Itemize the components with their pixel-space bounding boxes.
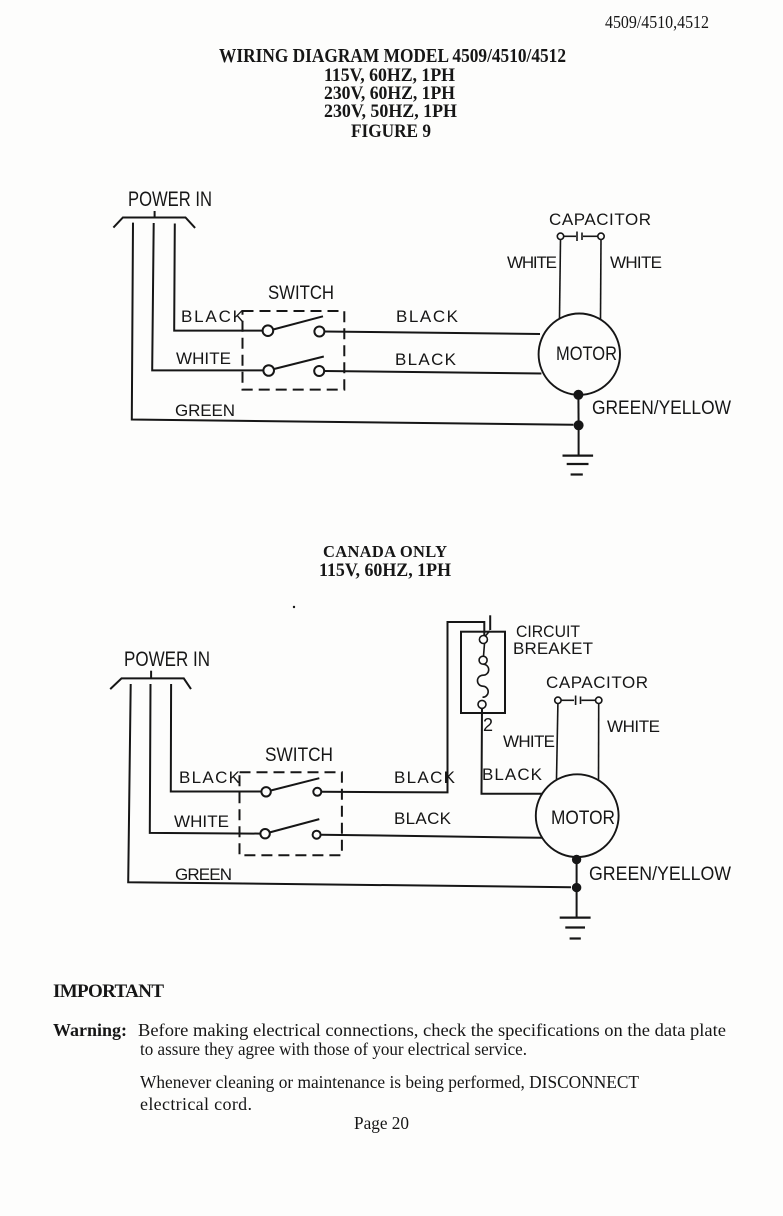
switch S2 pole 2 (diagram 2) [260,819,320,839]
svg-text:Page 20: Page 20 [354,1113,409,1133]
svg-text:FIGURE 9: FIGURE 9 [351,122,431,142]
svg-text:GREEN: GREEN [175,401,235,420]
svg-text:BLACK: BLACK [181,307,245,326]
svg-text:GREEN/YELLOW: GREEN/YELLOW [592,398,731,419]
svg-text:Whenever cleaning or maintenan: Whenever cleaning or maintenance is bein… [140,1072,639,1092]
svg-text:2: 2 [483,715,493,735]
svg-text:WHITE: WHITE [174,812,229,831]
junction dot green wire (diagram 2) [572,883,581,892]
svg-text:BLACK: BLACK [395,350,457,369]
svg-text:to assure they agree with thos: to assure they agree with those of your … [140,1039,527,1059]
svg-text:electrical cord.: electrical cord. [140,1094,252,1114]
svg-text:BLACK: BLACK [394,768,456,787]
svg-text:BLACK: BLACK [394,809,452,828]
svg-text:GREEN: GREEN [175,865,232,884]
svg-text:115V, 60HZ, 1PH: 115V, 60HZ, 1PH [324,66,456,86]
svg-text:BREAKET: BREAKET [513,639,593,658]
wire switch pole 2 to motor (diagram 2) [321,835,542,838]
wire black lead (diagram 1) [174,224,262,331]
motor M2 (diagram 2) [536,774,619,857]
svg-text:4509/4510,4512: 4509/4510,4512 [605,12,709,32]
ground symbol (diagram 1) [563,456,594,475]
svg-text:POWER IN: POWER IN [124,648,210,671]
wire circuit breaker pin 2 to motor (diagram 2) [482,708,542,793]
svg-text:WHITE: WHITE [610,253,662,272]
svg-text:MOTOR: MOTOR [556,344,617,365]
wire black lead (diagram 2) [171,684,262,792]
wire motor terminal to green junction (diagram 2) [576,860,578,888]
svg-text:Warning:: Warning: [53,1020,127,1040]
svg-text:CANADA ONLY: CANADA ONLY [323,542,447,561]
stray period mark [293,606,295,608]
switch S2 dashed enclosure (diagram 2) [240,772,342,855]
svg-text:CAPACITOR: CAPACITOR [549,210,651,229]
wire green lead (diagram 1) [132,223,574,425]
switch S1 dashed enclosure (diagram 1) [243,311,345,390]
wire junction to ground (diagram 2) [576,888,578,918]
svg-text:SWITCH: SWITCH [268,283,334,304]
wire capacitor right lead (diagram 2) [598,704,600,781]
svg-text:115V, 60HZ, 1PH: 115V, 60HZ, 1PH [319,561,452,581]
svg-text:WIRING DIAGRAM MODEL 4509/4510: WIRING DIAGRAM MODEL 4509/4510/4512 [219,45,566,67]
svg-text:SWITCH: SWITCH [265,745,333,766]
svg-text:WHITE: WHITE [507,253,557,272]
power-in bracket (diagram 1) [113,211,195,228]
wire motor terminal to green junction (diagram 1) [577,395,579,426]
capacitor C1 (diagram 1) [557,232,604,242]
switch S1 pole 1 (diagram 1) [263,316,325,336]
svg-text:230V, 60HZ, 1PH: 230V, 60HZ, 1PH [324,84,456,104]
svg-text:BLACK: BLACK [482,765,543,784]
svg-text:BLACK: BLACK [179,768,241,787]
svg-text:BLACK: BLACK [396,307,459,326]
svg-text:POWER IN: POWER IN [128,188,212,211]
circuit breaker CB1 internals (diagram 2) [477,631,489,709]
wire switch pole 1 to circuit breaker pin 1 (diagram 2) [321,622,484,792]
wire capacitor left lead (diagram 1) [560,240,561,319]
svg-text:CAPACITOR: CAPACITOR [546,673,648,692]
wire capacitor left lead (diagram 2) [557,704,558,780]
wire white lead (diagram 1) [152,223,263,370]
svg-text:MOTOR: MOTOR [551,808,615,829]
pin label 1 (circuit breaker) [489,615,491,630]
svg-text:GREEN/YELLOW: GREEN/YELLOW [589,864,731,885]
capacitor C2 (diagram 2) [555,696,602,706]
wire capacitor right lead (diagram 1) [600,240,603,320]
svg-text:230V, 50HZ, 1PH: 230V, 50HZ, 1PH [324,102,458,122]
svg-text:WHITE: WHITE [607,717,660,736]
circuit breaker CB1 enclosure (diagram 2) [461,632,505,713]
wire green lead (diagram 2) [128,684,571,887]
power-in bracket (diagram 2) [110,671,191,689]
motor M1 (diagram 1) [539,314,620,395]
svg-text:Before making electrical conne: Before making electrical connections, ch… [138,1020,726,1040]
junction dot motor ground terminal (diagram 2) [572,855,581,864]
junction dot green wire (diagram 1) [574,420,584,430]
wire switch pole 1 to motor (diagram 1) [324,332,540,335]
switch S1 pole 2 (diagram 1) [263,357,324,377]
wire junction to ground (diagram 1) [578,425,580,455]
svg-text:IMPORTANT: IMPORTANT [53,981,164,1002]
switch S2 pole 1 (diagram 2) [261,778,321,796]
junction dot motor ground terminal (diagram 1) [573,390,583,400]
wire white lead (diagram 2) [150,684,261,834]
svg-text:WHITE: WHITE [176,349,231,368]
wire switch pole 2 to motor (diagram 1) [324,371,541,374]
svg-text:WHITE: WHITE [503,732,555,751]
ground symbol (diagram 2) [560,918,591,939]
